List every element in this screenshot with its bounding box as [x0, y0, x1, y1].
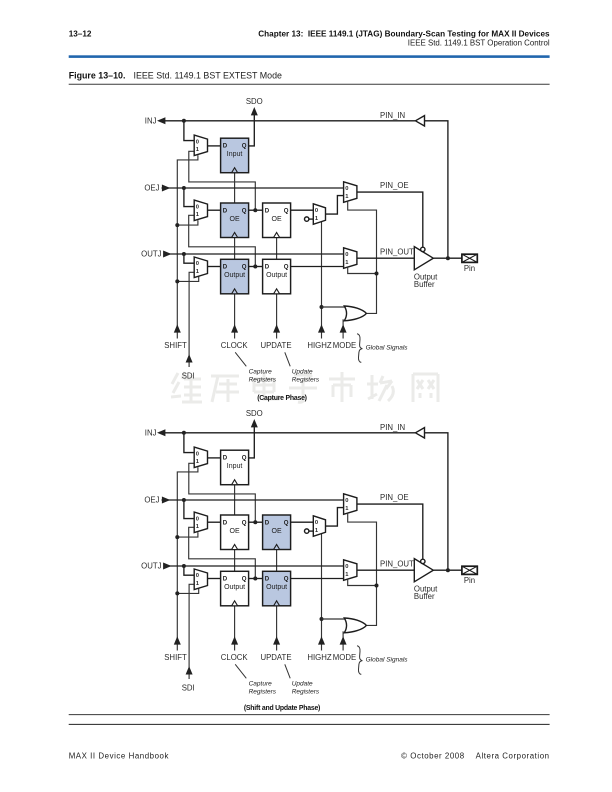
- wire SHIFT bus (bottom diagram): [177, 467, 198, 650]
- register OE (capture, top diagram): [221, 203, 249, 238]
- pointer line CLOCK to Capture Registers (bottom diagram): [235, 664, 246, 678]
- wire Input Q to SDO (bottom diagram): [249, 425, 255, 458]
- arrowhead MODE (bottom diagram): [340, 636, 347, 644]
- svg-text:SHIFT: SHIFT: [164, 341, 187, 350]
- svg-text:0: 0: [345, 498, 348, 504]
- svg-text:Capture: Capture: [249, 368, 273, 375]
- svg-text:Chapter 13: IEEE 1149.1 (JTAG: Chapter 13: IEEE 1149.1 (JTAG) Boundary-…: [258, 29, 550, 38]
- svg-text:SDI: SDI: [182, 371, 195, 380]
- svg-text:Update: Update: [292, 680, 313, 687]
- wire INJ to mux in0 (top diagram): [184, 121, 194, 141]
- wire OUTJ net (top diagram): [164, 253, 344, 255]
- svg-text:© October 2008 Altera Corpo: © October 2008 Altera Corporation: [401, 752, 549, 761]
- svg-text:Figure 13–10.: Figure 13–10.: [69, 70, 126, 80]
- wire select branch to PIN_OUT mux (bottom diagram): [348, 580, 377, 586]
- svg-text:0: 0: [196, 204, 199, 210]
- svg-text:SDO: SDO: [246, 97, 263, 106]
- arrowhead HIGHZ (top diagram): [318, 324, 325, 332]
- svg-text:INJ: INJ: [145, 116, 157, 125]
- svg-text:PIN_OE: PIN_OE: [380, 493, 409, 502]
- svg-text:D: D: [223, 576, 228, 583]
- junction Output Q tap (top diagram): [253, 265, 257, 269]
- svg-text:D: D: [265, 519, 270, 526]
- svg-text:MAX II Device Handbook: MAX II Device Handbook: [69, 752, 169, 761]
- bubble constant on mux4 in1 (bottom diagram): [305, 529, 314, 533]
- pin pad symbol (top diagram): [462, 254, 477, 262]
- svg-text:OE: OE: [272, 216, 282, 223]
- wire OEJ to mux in0 (bottom diagram): [184, 500, 194, 519]
- svg-text:D: D: [265, 576, 270, 583]
- wire OE Q feedback to Input mux in1 (top diagram): [189, 151, 256, 210]
- arrowhead CLOCK (bottom diagram): [231, 636, 238, 644]
- svg-text:PIN_IN: PIN_IN: [380, 111, 405, 120]
- junction SHIFT/Output sel (bottom diagram): [175, 591, 179, 595]
- arrowhead INJ (points left, top diagram): [157, 117, 165, 124]
- svg-text:Buffer: Buffer: [414, 280, 435, 289]
- svg-text:HIGHZ: HIGHZ: [307, 653, 331, 662]
- wire Output capture Q to update D (bottom diagram): [249, 578, 263, 580]
- svg-text:Output: Output: [224, 272, 245, 279]
- svg-text:INJ: INJ: [145, 428, 157, 437]
- svg-text:Registers: Registers: [292, 689, 320, 696]
- svg-text:Q: Q: [242, 207, 247, 214]
- register OE (capture, bottom diagram): [221, 515, 249, 550]
- junction SHIFT/OE sel (bottom diagram): [175, 535, 179, 539]
- svg-text:PIN_OUT: PIN_OUT: [380, 559, 414, 568]
- wire UPDATE net (top diagram): [276, 238, 278, 339]
- junction Output Q tap (bottom diagram): [253, 577, 257, 581]
- brace global signals (top diagram): [357, 334, 362, 363]
- svg-text:CLOCK: CLOCK: [221, 341, 249, 350]
- register OE (update, top diagram): [263, 203, 291, 238]
- wire MODE net (top diagram): [342, 319, 344, 338]
- mux PIN_OE select (top diagram): [344, 182, 357, 203]
- svg-text:UPDATE: UPDATE: [260, 341, 291, 350]
- register Output (update, top diagram): [263, 259, 291, 294]
- svg-text:OEJ: OEJ: [144, 184, 159, 193]
- mux OE update select (bottom diagram): [313, 516, 325, 537]
- mux OE cell (top diagram): [194, 200, 207, 221]
- svg-text:0: 0: [315, 520, 318, 526]
- mux output cell (bottom diagram): [194, 569, 207, 590]
- wire OEJ net (bottom diagram): [162, 499, 344, 501]
- arrowhead SHIFT (top diagram): [174, 324, 181, 332]
- svg-text:Q: Q: [284, 264, 289, 271]
- wire buffer out to pin (top diagram): [433, 257, 462, 259]
- wire PIN_IN to pin (top diagram): [425, 121, 448, 258]
- wire OR out to output-mux selects (bottom diagram): [348, 514, 377, 626]
- mux PIN_OUT select (bottom diagram): [344, 560, 357, 581]
- svg-text:Global Signals: Global Signals: [366, 345, 409, 352]
- junction select branch (top diagram): [375, 272, 379, 276]
- OR gate (HIGHZ+MODE) (top diagram): [344, 306, 366, 321]
- junction select branch (bottom diagram): [375, 584, 379, 588]
- wire Output Q feedback to OE mux in1 (bottom diagram): [189, 527, 256, 578]
- svg-text:0: 0: [345, 564, 348, 570]
- svg-text:D: D: [223, 207, 228, 214]
- output buffer (bottom diagram): [414, 559, 433, 582]
- svg-text:Q: Q: [284, 576, 289, 583]
- wire Output mux to Output reg D (top diagram): [208, 266, 221, 268]
- wire OEJ to mux in0 (top diagram): [184, 188, 194, 207]
- svg-text:D: D: [223, 455, 228, 462]
- arrowhead OUTJ (points right, bottom diagram): [163, 563, 171, 570]
- wire OE capture Q to update D (top diagram): [249, 209, 263, 211]
- arrowhead SDO (top diagram): [251, 107, 258, 115]
- arrowhead HIGHZ (bottom diagram): [318, 636, 325, 644]
- wire OEJ net (top diagram): [162, 187, 344, 189]
- wire OUTJ to mux in0 (top diagram): [184, 254, 194, 263]
- svg-text:Registers: Registers: [249, 377, 277, 384]
- svg-text:PIN_OE: PIN_OE: [380, 181, 409, 190]
- junction OUTJ tap (top diagram): [182, 252, 186, 256]
- svg-text:Pin: Pin: [464, 264, 475, 273]
- input buffer PIN_IN (top diagram): [415, 116, 424, 126]
- mux output cell (top diagram): [194, 257, 207, 278]
- svg-text:Q: Q: [242, 455, 247, 462]
- wire OUTJ to mux in0 (bottom diagram): [184, 566, 194, 575]
- pointer line CLOCK to Capture Registers (top diagram): [235, 352, 246, 366]
- wire OE mux to OE reg D (bottom diagram): [208, 521, 221, 523]
- svg-text:Q: Q: [242, 519, 247, 526]
- register OE (update, bottom diagram): [263, 515, 291, 550]
- svg-text:0: 0: [196, 516, 199, 522]
- svg-text:Q: Q: [284, 207, 289, 214]
- svg-text:Input: Input: [227, 151, 243, 158]
- svg-text:0: 0: [345, 252, 348, 258]
- svg-text:Pin: Pin: [464, 576, 475, 585]
- wire HIGHZ net (bottom diagram): [321, 534, 323, 651]
- svg-text:MODE: MODE: [333, 341, 356, 350]
- wire Input mux to Input reg D (top diagram): [208, 145, 221, 147]
- wire buffer out to pin (bottom diagram): [433, 569, 462, 571]
- wire OR out to output-mux selects (top diagram): [348, 202, 377, 314]
- svg-text:SDO: SDO: [246, 409, 263, 418]
- svg-text:0: 0: [196, 573, 199, 579]
- mux PIN_OUT select (top diagram): [344, 248, 357, 268]
- wire SHIFT to OE mux select (top diagram): [177, 220, 198, 225]
- register Input (capture, bottom diagram): [221, 450, 249, 485]
- svg-text:SDI: SDI: [182, 683, 195, 692]
- arrowhead OEJ (points right, bottom diagram): [162, 497, 170, 504]
- wire OE Q feedback to Input mux in1 (bottom diagram): [189, 463, 256, 522]
- arrowhead OEJ (points right, top diagram): [162, 185, 170, 192]
- wire SHIFT to Output mux select (top diagram): [177, 276, 198, 281]
- mux OE cell (bottom diagram): [194, 512, 207, 533]
- wire SDI net (bottom diagram): [189, 584, 194, 679]
- svg-text:OE: OE: [272, 528, 282, 535]
- svg-text:D: D: [223, 143, 228, 150]
- wire MODE net (bottom diagram): [342, 631, 344, 650]
- figure top rule: [69, 83, 550, 85]
- wire PIN_OE to output buffer enable (top diagram): [357, 192, 423, 247]
- svg-text:MODE: MODE: [333, 653, 356, 662]
- mux PIN_OE select (bottom diagram): [344, 494, 357, 515]
- svg-text:0: 0: [315, 208, 318, 214]
- svg-text:D: D: [265, 264, 270, 271]
- svg-text:CLOCK: CLOCK: [221, 653, 249, 662]
- wire Input mux to Input reg D (bottom diagram): [208, 457, 221, 459]
- mux input cell (top diagram): [194, 135, 207, 156]
- svg-text:Global Signals: Global Signals: [366, 657, 409, 664]
- pointer line UPDATE to Update Registers (top diagram): [285, 352, 290, 366]
- OR gate (HIGHZ+MODE) (bottom diagram): [344, 618, 366, 633]
- junction pin node (bottom diagram): [446, 568, 450, 572]
- wire CLOCK net (top diagram): [234, 173, 236, 339]
- register Output (update, bottom diagram): [263, 571, 291, 606]
- svg-text:Output: Output: [266, 584, 287, 591]
- svg-text:Registers: Registers: [249, 689, 277, 696]
- wire mux4 out to PIN_OE mux in1 (top diagram): [326, 196, 344, 215]
- output buffer (top diagram): [414, 247, 433, 270]
- svg-text:0: 0: [196, 451, 199, 457]
- junction SHIFT/OE sel (top diagram): [175, 223, 179, 227]
- junction OEJ tap (top diagram): [182, 186, 186, 190]
- arrowhead UPDATE (top diagram): [273, 324, 280, 332]
- wire UPDATE net (bottom diagram): [276, 550, 278, 651]
- arrowhead UPDATE (bottom diagram): [273, 636, 280, 644]
- bubble constant on mux4 in1 (top diagram): [305, 217, 314, 221]
- register Output (capture, bottom diagram): [221, 571, 249, 606]
- arrowhead SHIFT (bottom diagram): [174, 636, 181, 644]
- junction HIGHZ/OR tap (bottom diagram): [320, 617, 324, 621]
- arrowhead INJ (points left, bottom diagram): [157, 429, 165, 436]
- svg-text:PIN_OUT: PIN_OUT: [380, 247, 414, 256]
- junction INJ tap (bottom diagram): [182, 431, 186, 435]
- svg-text:13–12: 13–12: [69, 29, 92, 38]
- wire Output update Q to PIN_OUT mux in1 (top diagram): [291, 266, 344, 268]
- svg-text:OUTJ: OUTJ: [141, 562, 161, 571]
- junction pin node (top diagram): [446, 256, 450, 260]
- wire Input Q to SDO (top diagram): [249, 113, 255, 146]
- svg-text:Output: Output: [266, 272, 287, 279]
- svg-text:Q: Q: [242, 143, 247, 150]
- header rule (blue): [69, 55, 550, 58]
- svg-text:Q: Q: [242, 576, 247, 583]
- junction OE Q tap (top diagram): [253, 208, 257, 212]
- wire OE update Q to mux4 in0 (top diagram): [291, 209, 314, 211]
- wire HIGHZ net (top diagram): [321, 222, 323, 339]
- arrowhead SDI (top diagram): [186, 354, 193, 362]
- wire INJ to mux in0 (bottom diagram): [184, 433, 194, 453]
- svg-text:Buffer: Buffer: [414, 592, 435, 601]
- junction SHIFT/Output sel (top diagram): [175, 279, 179, 283]
- svg-text:Registers: Registers: [292, 377, 320, 384]
- wire INJ net (top diagram): [160, 120, 416, 122]
- svg-text:UPDATE: UPDATE: [260, 653, 291, 662]
- wire HIGHZ to OR gate (bottom diagram): [322, 618, 348, 620]
- wire mux4 out to PIN_OE mux in1 (bottom diagram): [326, 508, 344, 526]
- svg-text:Capture: Capture: [249, 680, 273, 687]
- watermark 维库电子市场网 (faint): [171, 372, 438, 402]
- wire select branch to PIN_OUT mux (top diagram): [348, 268, 377, 274]
- junction INJ tap (top diagram): [182, 119, 186, 123]
- wire OE update Q to mux4 in0 (bottom diagram): [291, 521, 314, 523]
- svg-text:PIN_IN: PIN_IN: [380, 423, 405, 432]
- wire OUTJ net (bottom diagram): [164, 565, 344, 567]
- arrowhead MODE (top diagram): [340, 324, 347, 332]
- svg-text:D: D: [223, 264, 228, 271]
- svg-text:D: D: [223, 519, 228, 526]
- wire SHIFT bus (top diagram): [177, 155, 198, 338]
- svg-text:0: 0: [345, 186, 348, 192]
- svg-text:IEEE Std. 1149.1 BST Operation: IEEE Std. 1149.1 BST Operation Control: [408, 39, 550, 48]
- svg-text:HIGHZ: HIGHZ: [307, 341, 331, 350]
- svg-text:0: 0: [196, 261, 199, 267]
- svg-text:Q: Q: [242, 264, 247, 271]
- svg-text:(Shift and Update Phase): (Shift and Update Phase): [244, 705, 320, 712]
- svg-text:IEEE Std. 1149.1 BST EXTEST Mo: IEEE Std. 1149.1 BST EXTEST Mode: [134, 70, 283, 80]
- svg-text:0: 0: [196, 139, 199, 145]
- wire PIN_OUT net (bottom diagram): [357, 569, 414, 571]
- wire OE mux to OE reg D (top diagram): [208, 209, 221, 211]
- wire Output capture Q to update D (top diagram): [249, 266, 263, 268]
- svg-text:Update: Update: [292, 368, 313, 375]
- mux input cell (bottom diagram): [194, 447, 207, 468]
- wire INJ net (bottom diagram): [160, 432, 416, 434]
- wire SHIFT to OE mux select (bottom diagram): [177, 532, 198, 537]
- junction HIGHZ/OR tap (top diagram): [320, 305, 324, 309]
- arrowhead CLOCK (top diagram): [231, 324, 238, 332]
- wire OE capture Q to update D (bottom diagram): [249, 521, 263, 523]
- svg-text:(Capture Phase): (Capture Phase): [257, 395, 307, 402]
- pointer line UPDATE to Update Registers (bottom diagram): [285, 664, 290, 678]
- arrowhead SDO (bottom diagram): [251, 419, 258, 427]
- svg-text:Q: Q: [284, 519, 289, 526]
- wire Output update Q to PIN_OUT mux in1 (bottom diagram): [291, 578, 344, 580]
- junction OEJ tap (bottom diagram): [182, 498, 186, 502]
- svg-text:OEJ: OEJ: [144, 496, 159, 505]
- wire HIGHZ to OR gate (top diagram): [322, 306, 348, 308]
- footer rule: [69, 723, 550, 725]
- svg-text:OUTJ: OUTJ: [141, 250, 161, 259]
- svg-text:OE: OE: [230, 216, 240, 223]
- register Input (capture, top diagram): [221, 138, 249, 173]
- wire CLOCK net (bottom diagram): [234, 485, 236, 651]
- svg-text:OE: OE: [230, 528, 240, 535]
- svg-text:D: D: [265, 207, 270, 214]
- svg-text:Input: Input: [227, 463, 243, 470]
- brace global signals (bottom diagram): [357, 646, 362, 675]
- wire Output Q feedback to OE mux in1 (top diagram): [189, 215, 256, 266]
- wire Output mux to Output reg D (bottom diagram): [208, 578, 221, 580]
- input buffer PIN_IN (bottom diagram): [415, 428, 424, 438]
- wire PIN_IN to pin (bottom diagram): [425, 433, 448, 570]
- figure bottom rule: [69, 714, 550, 716]
- junction OE Q tap (bottom diagram): [253, 520, 257, 524]
- wire PIN_OUT net (top diagram): [357, 257, 414, 259]
- wire SDI net (top diagram): [189, 272, 194, 367]
- svg-text:Output: Output: [224, 584, 245, 591]
- wire SHIFT to Output mux select (bottom diagram): [177, 588, 198, 593]
- wire PIN_OE to output buffer enable (bottom diagram): [357, 504, 423, 559]
- arrowhead OUTJ (points right, top diagram): [163, 251, 171, 258]
- register Output (capture, top diagram): [221, 259, 249, 294]
- junction OUTJ tap (bottom diagram): [182, 564, 186, 568]
- arrowhead SDI (bottom diagram): [186, 666, 193, 674]
- mux OE update select (top diagram): [313, 204, 325, 225]
- pin pad symbol (bottom diagram): [462, 566, 477, 574]
- svg-text:SHIFT: SHIFT: [164, 653, 187, 662]
